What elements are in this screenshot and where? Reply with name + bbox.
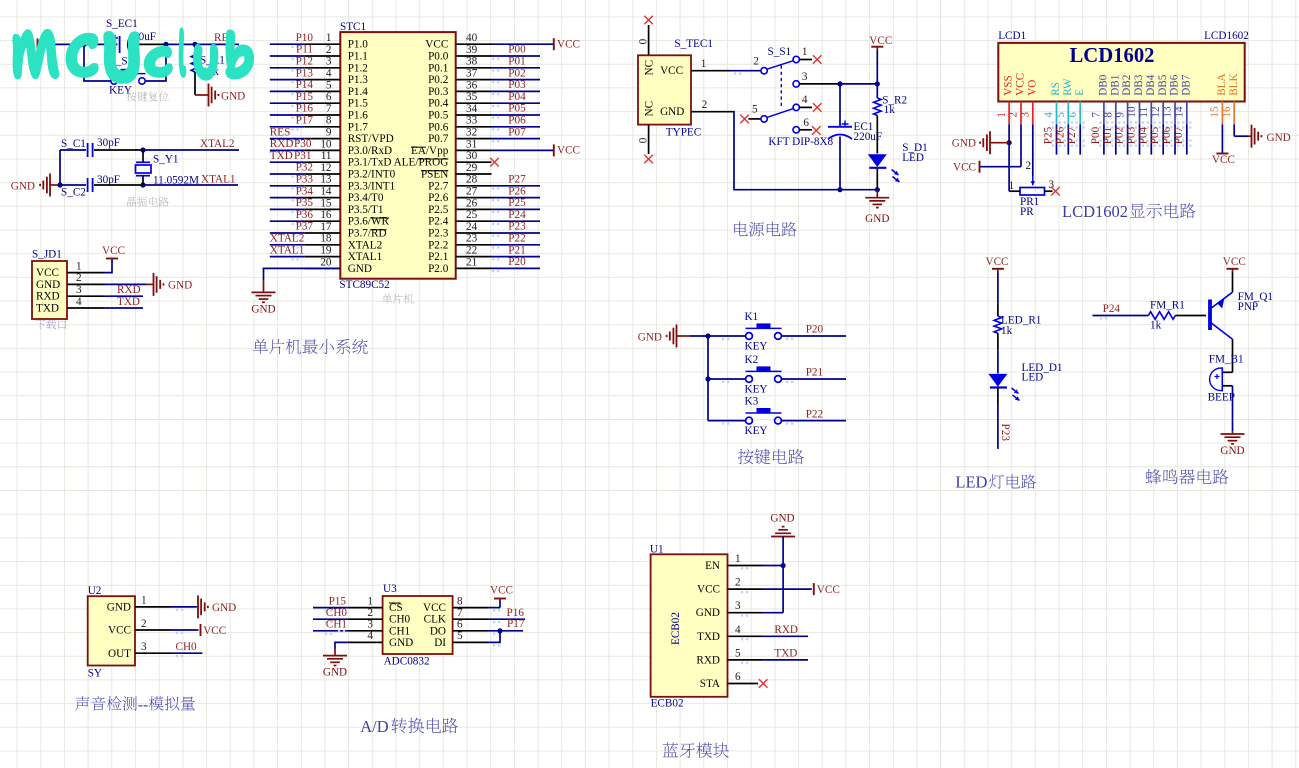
section title LED灯电路 (955, 473, 1036, 492)
IC STC1 pin 15 (P3.5/T1) (270, 197, 384, 216)
no-connect X (S_S1 pin1) (813, 55, 822, 64)
svg-text:DB0: DB0 (1098, 74, 1110, 96)
section title 声音检测--模拟量 (75, 696, 195, 713)
IC LCD1 pin 1 (VSS) (996, 75, 1015, 124)
svg-text:14: 14 (320, 186, 332, 198)
svg-text:VCC: VCC (557, 145, 580, 157)
svg-text:2: 2 (735, 577, 741, 589)
net label P04 (1137, 126, 1149, 144)
wire buzzer to gnd (1222, 386, 1232, 432)
svg-text:6: 6 (735, 671, 741, 683)
net label P16 (507, 607, 525, 619)
IC U2 designator (88, 585, 102, 597)
svg-text:VCC: VCC (1212, 154, 1235, 166)
svg-text:7: 7 (457, 607, 463, 619)
svg-text:K3: K3 (745, 395, 759, 407)
switch S_S1 pole B (749, 94, 813, 122)
svg-text:2: 2 (753, 55, 759, 67)
IC LCD1 pin 7 (DB0) (1091, 74, 1110, 124)
svg-text:TXD: TXD (270, 150, 293, 162)
annotation 晶振电路 (127, 197, 169, 207)
net label P17 (507, 618, 525, 630)
svg-text:P2.7: P2.7 (428, 180, 449, 192)
ground GND (power circuit) (865, 190, 889, 225)
net label RES (270, 126, 299, 142)
crystal S_Y1 value 11.0592M (153, 175, 199, 187)
pin 3 wire (U1 GND) (728, 600, 763, 617)
resistor FM_R1 (1148, 312, 1206, 320)
resistor LED_R1 (994, 316, 1002, 350)
net label P16 (292, 103, 314, 119)
wire XTAL1 net (143, 184, 238, 186)
net label P15 (329, 595, 347, 607)
svg-text:FM_R1: FM_R1 (1150, 299, 1185, 311)
svg-text:P0.2: P0.2 (428, 74, 448, 86)
svg-text:1k: 1k (884, 104, 896, 116)
svg-text:8: 8 (1103, 112, 1115, 118)
svg-text:8: 8 (457, 595, 463, 607)
svg-text:GND: GND (1220, 445, 1244, 457)
svg-text:VCC: VCC (985, 256, 1008, 268)
capacitor EC1 (828, 84, 852, 190)
svg-text:15: 15 (1209, 106, 1221, 118)
svg-text:K2: K2 (745, 354, 759, 366)
net label P06 (492, 115, 526, 131)
IC STC1 pin 32 (P0.7) (428, 127, 540, 146)
svg-text:P15: P15 (296, 91, 314, 103)
svg-text:P12: P12 (296, 56, 313, 68)
capacitor S_C2 (60, 178, 143, 192)
junction (cap right) (163, 42, 168, 47)
IC U3 body (383, 596, 453, 654)
net label RXD (U1) (774, 624, 798, 636)
switch S_S1 pole A (753, 46, 812, 74)
svg-text:GND: GND (251, 304, 275, 316)
pin 2 wire (U2 VCC) (135, 618, 199, 634)
net label RES (214, 32, 235, 44)
net label P25 (492, 197, 526, 213)
svg-text:30pF: 30pF (97, 137, 120, 149)
capacitor S_EC1 value 10uF (133, 31, 156, 43)
power port VCC (power circuit) (869, 35, 892, 51)
svg-text:4: 4 (76, 296, 82, 308)
IC STC1 pin 35 (P0.4) (428, 91, 540, 110)
svg-text:6: 6 (326, 91, 332, 103)
IC LCD1 pin 10 (DB3) (1126, 74, 1145, 124)
svg-text:4: 4 (1043, 112, 1055, 118)
IC STC1 pin 22 (P2.1) (428, 245, 540, 264)
IC STC1 pin 24 (P2.3) (428, 221, 540, 240)
pin 5 wire (U3 DI) (453, 630, 501, 646)
wire LCD pin 8 (1111, 121, 1120, 154)
svg-text:VCC: VCC (869, 35, 892, 47)
svg-text:P3.2/INT0: P3.2/INT0 (348, 169, 396, 181)
net label P21 (492, 244, 526, 260)
svg-text:P26: P26 (508, 185, 526, 197)
connector S_JD1 label (32, 249, 62, 261)
power port VCC (reset) (12, 38, 38, 51)
net label P26 (492, 185, 526, 201)
svg-text:P2.4: P2.4 (428, 216, 449, 228)
svg-text:1: 1 (367, 595, 373, 607)
IC STC1 body (340, 32, 455, 279)
svg-text:4: 4 (802, 94, 808, 106)
annotation 按键复位 (126, 91, 168, 101)
svg-text:VCC: VCC (108, 625, 131, 637)
svg-text:CLK: CLK (424, 614, 446, 626)
svg-text:1: 1 (802, 46, 808, 58)
IC STC1 pin 5 (P1.4) (270, 79, 369, 98)
svg-text:P1.6: P1.6 (348, 110, 369, 122)
net label RXD (S_JD1) (117, 284, 141, 296)
svg-text:KEY: KEY (745, 425, 768, 437)
wire to reset GND (195, 94, 208, 96)
svg-text:CH0: CH0 (389, 614, 411, 626)
pin 6 wire (U3 DO) (453, 619, 523, 635)
net label XTAL1 (201, 174, 236, 186)
svg-text:1k: 1k (1150, 320, 1162, 332)
IC STC1 pin 17 (P3.7/RD) (270, 221, 387, 240)
junction (crystal gnd) (57, 182, 62, 187)
svg-text:3: 3 (1020, 112, 1032, 118)
svg-text:VCC: VCC (1223, 256, 1246, 268)
net label XTAL1 (270, 244, 305, 260)
net label P04 (492, 91, 526, 107)
svg-text:8: 8 (326, 115, 332, 127)
svg-text:RES: RES (270, 126, 291, 138)
svg-text:32: 32 (466, 127, 477, 139)
resistor LED_R1 label (1001, 314, 1041, 326)
svg-text:GND: GND (389, 637, 413, 649)
IC LCD1 pin 9 (DB2) (1114, 75, 1133, 125)
IC LCD1 pin 2 (VCC) (1008, 73, 1027, 125)
resistor S_R1 label (200, 55, 225, 67)
svg-text:15: 15 (320, 197, 332, 209)
net label P07 (492, 126, 526, 142)
svg-text:U2: U2 (88, 585, 102, 597)
svg-text:P21: P21 (806, 367, 823, 379)
wire LCD pin 12 (1159, 121, 1168, 154)
net label P37 (292, 221, 314, 237)
wire LCD pin 6 (1076, 121, 1085, 154)
logo MCUclub (13, 28, 254, 83)
svg-text:GND: GND (638, 332, 662, 344)
svg-text:VCC: VCC (953, 162, 976, 174)
svg-text:33: 33 (466, 115, 478, 127)
svg-text:P04: P04 (508, 91, 526, 103)
net label P01 (1102, 127, 1114, 144)
svg-text:28: 28 (466, 174, 478, 186)
svg-text:11.0592M: 11.0592M (153, 175, 199, 187)
buzzer FM_B1 comment BEEP (1208, 392, 1235, 404)
net label P24 (1103, 303, 1121, 315)
svg-text:38: 38 (466, 56, 478, 68)
svg-text:P31: P31 (294, 150, 311, 162)
net label XTAL2 (200, 138, 235, 150)
annotation 单片机 (382, 294, 414, 304)
junction (VCC rail) (875, 81, 880, 86)
IC LCD1 pin 12 (DB5) (1150, 74, 1169, 124)
wire STC1 GND (264, 268, 341, 292)
svg-text:P3.3/INT1: P3.3/INT1 (348, 180, 396, 192)
svg-text:VCC: VCC (817, 584, 840, 596)
svg-text:17: 17 (320, 221, 332, 233)
diode S_D1 comment LED (902, 152, 924, 164)
connector S_TEC1 designator (674, 38, 713, 50)
IC STC1 pin 2 (P1.1) (270, 44, 368, 63)
pin 4 wire (U3 GND) (335, 630, 383, 649)
IC STC1 pin 9 (RST/VPD) (270, 127, 394, 146)
svg-text:LCD1: LCD1 (998, 30, 1026, 42)
svg-text:P05: P05 (1149, 126, 1161, 144)
svg-text:SY: SY (88, 668, 102, 680)
svg-text:U3: U3 (383, 583, 397, 595)
svg-text:2: 2 (1008, 112, 1020, 118)
crystal S_Y1 label (153, 154, 179, 166)
pin 3 wire (U3 CH1) (313, 619, 383, 635)
svg-text:2: 2 (326, 44, 332, 56)
svg-text:GND: GND (660, 106, 684, 118)
net label P27 (1066, 126, 1078, 144)
IC STC1 pin 6 (P1.5) (270, 91, 369, 110)
wire VCC to reset node (38, 43, 85, 45)
wire LCD pin 9 (1123, 121, 1132, 154)
svg-text:1: 1 (996, 112, 1008, 118)
IC STC1 part name (339, 279, 389, 291)
svg-text:P20: P20 (508, 256, 526, 268)
wire EN-GND link (762, 566, 783, 613)
IC LCD1 pin 3 (VO) (1020, 80, 1039, 125)
svg-text:GND: GND (1267, 132, 1291, 144)
svg-text:P01: P01 (508, 56, 525, 68)
net label P21 (806, 367, 823, 379)
svg-text:DB2: DB2 (1121, 75, 1133, 96)
resistor LED_R1 value 1k (1001, 325, 1013, 337)
svg-text:RXD: RXD (774, 624, 798, 636)
svg-text:P27: P27 (1066, 126, 1078, 144)
net label P05 (492, 103, 526, 119)
svg-text:P02: P02 (508, 67, 525, 79)
svg-text:CS: CS (389, 602, 403, 614)
svg-text:KFT DIP-8X8: KFT DIP-8X8 (768, 136, 833, 148)
svg-text:2: 2 (702, 99, 708, 111)
svg-text:P23: P23 (999, 424, 1011, 442)
svg-text:P37: P37 (296, 221, 314, 233)
IC STC1 pin 12 (P3.2/INT0) (270, 162, 396, 181)
svg-text:GND: GND (221, 90, 245, 102)
no-connect X (S_S1 pin6) (812, 126, 821, 135)
net label P34 (292, 185, 314, 201)
svg-text:23: 23 (466, 233, 478, 245)
svg-text:25: 25 (466, 209, 478, 221)
wire crystal left vertical (59, 150, 61, 185)
net label P00 (492, 44, 526, 60)
svg-text:P0.0: P0.0 (428, 51, 449, 63)
IC LCD1 body (998, 43, 1244, 102)
capacitor S_C2 label (61, 187, 86, 199)
svg-text:BLA: BLA (1216, 73, 1228, 95)
junction (resistor top) (192, 42, 197, 47)
svg-text:21: 21 (466, 256, 477, 268)
svg-text:34: 34 (466, 103, 478, 115)
svg-text:DB7: DB7 (1180, 74, 1192, 96)
transistor FM_Q1 comment PNP (1238, 301, 1259, 313)
svg-text:3: 3 (326, 56, 332, 68)
svg-text:6: 6 (1067, 112, 1079, 118)
transistor FM_Q1 label (1238, 291, 1273, 303)
svg-text:OUT: OUT (108, 648, 131, 660)
svg-text:P03: P03 (508, 79, 526, 91)
svg-text:P24: P24 (1103, 303, 1121, 315)
IC LCD1 pin 16 (BLK) (1221, 73, 1240, 124)
push button K3 (708, 395, 846, 437)
svg-text:VCC: VCC (1015, 73, 1027, 96)
resistor S_R2 (874, 98, 882, 154)
svg-text:14: 14 (1174, 106, 1186, 118)
svg-text:2: 2 (1026, 160, 1032, 172)
section title 蓝牙模块 (663, 742, 729, 757)
svg-text:CH1: CH1 (389, 625, 410, 637)
svg-text:35: 35 (466, 91, 478, 103)
svg-text:3: 3 (802, 71, 808, 83)
no-connect X (pin 30) (490, 158, 499, 167)
pin 8 wire (U3 VCC) (453, 595, 501, 611)
svg-text:GND: GND (168, 280, 192, 292)
svg-text:P22: P22 (806, 408, 823, 420)
svg-text:P1.1: P1.1 (348, 51, 368, 63)
svg-text:TXD: TXD (774, 648, 797, 660)
net label P02 (492, 67, 526, 83)
svg-text:VCC: VCC (423, 602, 446, 614)
pin 3 wire (S_JD1 RXD) (67, 284, 143, 296)
wire gnd rail (733, 112, 877, 190)
svg-text:P00: P00 (508, 44, 526, 56)
section title 电源电路 (734, 222, 796, 237)
capacitor S_EC1 label (106, 18, 138, 30)
potentiometer PR1 label (1020, 196, 1039, 208)
svg-text:ECB02: ECB02 (651, 697, 684, 709)
diode S_D1 label (902, 142, 928, 154)
section title A/D转换电路 (360, 717, 458, 736)
svg-text:9: 9 (1114, 112, 1126, 118)
svg-text:31: 31 (466, 138, 477, 150)
IC LCD1 pin 15 (BLA) (1209, 73, 1228, 124)
wire BLA down (1221, 124, 1223, 153)
svg-text:37: 37 (466, 68, 478, 80)
svg-text:1: 1 (76, 260, 82, 272)
ground GND (buzzer) (1220, 431, 1244, 457)
power port VCC (S_JD1) (102, 245, 125, 259)
power port VCC (U1) (814, 583, 840, 596)
svg-text:P27: P27 (508, 174, 526, 186)
svg-text:GND: GND (36, 279, 60, 291)
svg-text:12: 12 (1150, 106, 1162, 117)
section title 蜂鸣器电路 (1146, 469, 1229, 484)
svg-text:3: 3 (76, 284, 82, 296)
annotation 下载口 (35, 320, 66, 330)
wire LCD pin 7 (1099, 121, 1108, 154)
pin 1 wire (S_JD1 VCC) (67, 260, 112, 273)
svg-text:P25: P25 (1043, 126, 1055, 144)
net label XTAL2 (270, 233, 305, 249)
wire LED_R1 to LED_D1 (997, 350, 999, 374)
svg-text:7: 7 (1091, 112, 1103, 118)
pin 2 wire (U1 VCC) (728, 577, 812, 594)
net label P05 (1149, 126, 1161, 144)
svg-text:S_TEC1: S_TEC1 (674, 38, 713, 50)
svg-text:P35: P35 (296, 197, 314, 209)
net label P02 (1114, 127, 1126, 144)
svg-text:2: 2 (367, 607, 373, 619)
capacitor S_C1 value 30pF (97, 137, 120, 149)
no-connect X (S_S1 pin4) (813, 103, 822, 112)
svg-text:P26: P26 (1054, 126, 1066, 144)
IC STC1 pin 20 (GND) (305, 256, 372, 275)
net label P07 (1173, 126, 1185, 144)
svg-text:S_Y1: S_Y1 (153, 154, 179, 166)
net label TXD (U1) (774, 648, 797, 660)
push button K1 (708, 311, 846, 353)
capacitor S_EC1 (84, 35, 166, 53)
no-connect X (U1 STA) (759, 679, 768, 688)
net label CH0 (U2) (176, 641, 198, 653)
svg-text:XTAL2: XTAL2 (348, 239, 383, 251)
net label P20 (806, 324, 824, 336)
svg-text:P1.5: P1.5 (348, 98, 369, 110)
svg-text:DB4: DB4 (1145, 74, 1157, 96)
wire collector to buzzer (1222, 339, 1232, 372)
svg-text:--: -- (138, 696, 149, 713)
svg-text:P0.6: P0.6 (428, 121, 449, 133)
svg-text:4: 4 (326, 68, 332, 80)
net label P23 (492, 221, 526, 237)
wire LED to P23 (997, 405, 999, 449)
svg-text:S_EC1: S_EC1 (106, 18, 138, 30)
potentiometer PR1 comment PR (1020, 206, 1034, 218)
IC STC1 pin 37 (P0.2) (428, 68, 540, 87)
svg-text:XTAL1: XTAL1 (348, 251, 383, 263)
svg-text:1: 1 (735, 553, 741, 565)
potentiometer PR1 wiper arrow (1031, 176, 1036, 185)
svg-text:GND: GND (348, 263, 372, 275)
svg-text:P1.7: P1.7 (348, 121, 369, 133)
net label P14 (292, 79, 314, 95)
net label P22 (492, 233, 526, 249)
svg-text:24: 24 (466, 221, 478, 233)
svg-text:VCC: VCC (203, 625, 226, 637)
svg-text:P04: P04 (1137, 126, 1149, 144)
IC STC1 pin 7 (P1.6) (270, 103, 369, 122)
svg-text:9: 9 (326, 127, 332, 139)
svg-text:3: 3 (367, 619, 373, 631)
section title 单片机最小系统 (253, 339, 368, 354)
svg-text:5: 5 (752, 104, 758, 116)
svg-text:VSS: VSS (1003, 75, 1015, 96)
svg-text:LED: LED (1022, 372, 1044, 384)
ground GND (U2) (197, 595, 237, 618)
IC STC1 pin 10 (P3.0/RxD) (270, 138, 392, 157)
net label P26 (1054, 126, 1066, 144)
svg-text:5: 5 (1055, 112, 1067, 118)
svg-text:DO: DO (430, 625, 446, 637)
svg-text:RXD: RXD (36, 291, 60, 303)
net label P03 (492, 79, 526, 95)
svg-text:P14: P14 (296, 79, 314, 91)
wire LCD pin 4 (1052, 121, 1061, 154)
resistor S_R1 (191, 44, 199, 95)
wire VCC to LED_R1 (997, 273, 999, 317)
IC LCD1 pin 4 (RS) (1043, 82, 1062, 124)
